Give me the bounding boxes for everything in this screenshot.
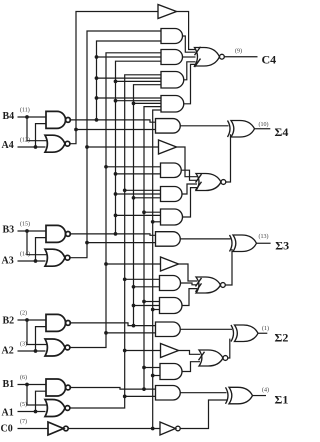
wire NOR2 branch to buffer T3 [106,263,161,265]
wire inverter2 output to XOR1 [180,400,227,429]
NOR gate (B4+A4)' [45,135,70,152]
svg-text:(9): (9) [235,48,242,55]
AND gate C4T (5-input, C4 term) [161,96,184,113]
svg-text:B1: B1 [3,379,15,390]
wire NAND1 to AND-2a input [144,367,160,369]
wire NAND2 to AND-C4 input [134,102,162,104]
AND gate 4c (4-input carry4 term) [161,209,183,225]
junction NOR2 branch to buffer T3 [104,262,108,266]
XOR gate sum-1 [226,387,253,404]
AND gate 2a (2-input carry2 term) [160,364,182,380]
wire NAND2 to AND-3a input [134,286,160,288]
wire AND-3b output to carry3-NOR [182,289,197,306]
junction NAND3 to AND-4a [114,172,118,176]
pin number (7) for C0 [20,418,27,425]
input label A2 [2,346,14,357]
NOR gate (B2+A2)' [45,339,70,356]
junction NAND3 to AND-4c [114,214,118,218]
pin number (1) for sum2 [262,325,269,332]
junction NOR1 branch to AND-4b [123,188,127,192]
junction ~C0 to AND-4c [151,220,155,224]
wire B3 to NOR input [27,231,47,255]
junction NOR4 branch to P4 [74,128,78,132]
svg-text:(11): (11) [20,107,30,114]
wire T4 output to carry4-NOR [177,147,198,177]
wire NAND2 to AND-4b input [134,197,161,199]
AND gate 4b (3-input carry4 term) [161,187,183,202]
NAND gate (B3·A3)' [46,225,70,242]
AND gate P1 (half-sum bit 1) [156,386,181,401]
inverter U-INV1 (C0) [48,422,68,435]
wire NOR1 branch to AND-4b input [125,189,161,191]
junction NOR3 branch to buffer T4 [85,145,89,149]
AND gate 3b (3-input carry3 term) [160,298,183,314]
wire NOR1 branch to buffer T2 [125,350,161,352]
junction NAND2 to AND-4b [132,196,136,200]
wire NOR3 output to vertical bus [70,31,162,258]
svg-text:A4: A4 [2,140,14,151]
wire NAND4 vertical bus [97,41,162,120]
wire carry3 to XOR3 [225,249,232,285]
pin number (11) for B4 [20,107,30,114]
junction NAND2 to AND-3a [132,285,136,289]
AND gate P3 (half-sum bit 3) [156,232,181,247]
junction NAND3 to AND-C4 [114,99,118,103]
wire AND-3a output to carry3-NOR [181,283,198,285]
NAND gate (B4·A4)' [46,111,70,128]
pin number (4) for sum1 [262,387,269,394]
wire T-top output to C4-NOR [177,12,196,50]
junction NOR3 branch to P3 [85,241,89,245]
bundle slash C4-NOR upper [195,47,201,56]
junction NOR1 branch to P1 [123,395,127,399]
junction B3 split [25,229,29,233]
svg-text:Σ2: Σ2 [275,331,289,345]
pin number (3) for A2 [20,341,27,348]
wire B1 to NOR input [27,385,47,406]
output label sum2 [275,331,289,345]
AND gate 3a (2-input carry3 term) [160,276,181,291]
junction ~C0 to vertical bus [151,427,155,431]
junction NOR2 branch to AND-4a [104,165,108,169]
wire NAND2 to AND-3b input [134,305,160,307]
wire NAND1 vertical bus [144,107,162,390]
wire A4 input [18,146,46,148]
wire NAND3 to AND-4b input [116,193,161,195]
junction NAND3 to vertical bus [114,232,118,236]
junction ~C0 to AND-3b [151,308,155,312]
junction NAND3 to AND-4b [114,192,118,196]
wire B1 input [18,384,47,386]
pin number (6) for B1 [20,374,27,381]
XOR gate sum-2 [231,325,258,342]
wire NAND1 output to P1 input [69,388,156,390]
junction NAND2 to vertical bus [132,324,136,328]
XOR gate sum-3 [230,235,257,252]
svg-text:Σ1: Σ1 [275,393,289,407]
wire B4 input [18,116,47,118]
input label C0 [1,424,13,435]
junction NOR1 branch to AND-3a [123,277,127,281]
junction NAND4 to AND-C4 [95,96,99,100]
svg-text:(15): (15) [20,221,30,228]
input label B2 [3,315,15,326]
junction A4 split [34,145,38,149]
wire A3 input [18,260,46,262]
svg-text:Σ4: Σ4 [275,125,289,139]
pin number (5) for A1 [20,401,27,408]
svg-text:(6): (6) [20,374,27,381]
wire C4 output [224,56,257,58]
junction NAND3 to AND-C3 [114,80,118,84]
wire NAND2 output to P2 input [69,323,156,326]
wire NAND2 vertical bus [134,85,161,326]
pin number (15) for B3 [20,221,30,228]
junction NAND4 to AND-C2 [95,55,99,59]
AND gate 4a (2-input carry4 term) [161,163,182,178]
output label C4 [262,53,277,67]
pin number (9) for C4 [235,48,242,55]
junction B4 split [25,115,29,119]
wire P2 output to XOR2 [180,328,232,330]
wire NAND1 to AND-3b input [144,301,160,303]
wire ~C0 vertical bus [153,110,162,429]
wire carry4 to XOR4 [226,134,231,182]
wire NAND3 to AND-C4 input [116,100,162,102]
wire A2 to NAND input [36,327,47,351]
wire carry2 to XOR2 [228,339,230,358]
wire NAND4 to AND-C4 input [97,97,162,99]
NOR gate carry-4 [196,174,226,191]
pin number (13) for sum3 [259,233,269,240]
wire NOR1 branch to AND-3a input [125,278,160,280]
wire NOR4 branch to P4 input [76,129,156,131]
wire T2 output to carry2-NOR [179,351,201,355]
NOR gate carry-2 [199,350,228,366]
svg-text:Σ3: Σ3 [275,239,289,253]
AND gate P4 (half-sum bit 4) [156,119,181,134]
wire NOR1 branch to P1 input [125,395,156,397]
junction NAND4 to vertical bus [95,118,99,122]
wire ~C0 to AND-2a input [153,375,160,377]
wire NAND4 output to P4 input [69,120,156,122]
wire AND-C3 output to C4-NOR [184,62,196,80]
wire NOR2 branch to P2 input [106,332,156,334]
input label A1 [2,407,14,418]
junction NAND1 to AND-2a [142,366,146,370]
NOR gate (B1+A1)' [45,400,70,417]
svg-text:C4: C4 [262,53,277,67]
svg-text:B4: B4 [3,111,15,122]
svg-text:A3: A3 [2,256,14,267]
junction ~C0 to AND-2a [151,374,155,378]
buffer T-top (NOR4 term) [158,5,177,19]
wire P3 output to XOR3 [180,238,230,240]
junction NAND2 to AND-3b [132,304,136,308]
svg-text:(3): (3) [20,341,27,348]
wire B4 to NOR input [27,117,47,141]
NOR gate U-C4 (carry out) [195,48,225,67]
svg-text:(10): (10) [259,121,269,128]
svg-text:(14): (14) [20,251,30,258]
junction NAND2 to AND-C4 [132,102,136,106]
wire NAND1 to AND-4c input [144,211,161,213]
svg-text:B3: B3 [3,225,15,236]
wire B3 input [18,230,47,232]
wire NOR3 branch to buffer T4 [87,146,159,148]
wire AND-2a output to carry2-NOR [182,362,200,372]
wire C0 input [18,428,49,430]
AND gate C1 (2-input, C4 term) [161,29,183,44]
junction NOR1 branch to buffer T2 [123,349,127,353]
wire NAND3 to AND-C3 input [116,80,161,82]
wire P4 output to XOR4 [180,125,228,127]
bundle slash C4-NOR lower [195,59,201,68]
wire AND-4c output to carry4-NOR [183,188,198,217]
wire P1 output to XOR1 [180,392,226,394]
pin number (2) for B2 [20,310,27,317]
wire AND-C1 output to C4-NOR [183,36,196,52]
wire AND-C2 output to C4-NOR [183,56,196,58]
buffer T2 (NOR1 term) [161,344,179,358]
input label A3 [2,256,14,267]
wire NOR2 branch to AND-4a input [106,166,161,168]
junction A3 split [34,259,38,263]
junction B1 split [25,383,29,387]
NOR gate carry-3 [196,277,225,293]
wire inverted C0 line [68,428,160,430]
svg-text:C0: C0 [1,424,13,435]
wire AND-C4T output to C4-NOR [184,64,196,103]
bundle slash carry2-NOR [199,352,205,361]
wire NAND3 to AND-4c input [116,214,161,216]
input label B4 [3,111,15,122]
input label B1 [3,379,15,390]
NOR gate (B3+A3)' [45,249,70,266]
junction NAND1 to AND-3b [142,300,146,304]
output label sum1 [275,393,289,407]
svg-text:(12): (12) [20,137,30,144]
output label sum4 [275,125,289,139]
input label A4 [2,140,14,151]
svg-text:B2: B2 [3,315,15,326]
pin number (10) for sum4 [259,121,269,128]
pin number (12) for A4 [20,137,30,144]
wire A4 to NAND input [36,124,47,147]
NAND gate (B2·A2)' [46,314,70,331]
wire NAND3 output to P3 input [69,234,156,235]
svg-text:(5): (5) [20,401,27,408]
svg-text:A2: A2 [2,346,14,357]
wire NAND4 to AND-C2 input [97,56,162,58]
junction B2 split [25,318,29,322]
bundle slash carry3-NOR upper [196,278,202,287]
wire A1 input [18,411,46,413]
input label B3 [3,225,15,236]
output label sum3 [275,239,289,253]
junction A2 split [34,349,38,353]
wire A1 to NAND input [36,391,47,411]
bundle slash carry3-NOR lower [196,283,202,292]
junction NAND4 to AND-C3 [95,76,99,80]
wire AND-4b output to carry4-NOR [182,184,197,194]
wire ~C0 to AND-4c input [153,221,161,223]
AND gate P2 (half-sum bit 2) [156,322,181,337]
svg-text:(1): (1) [262,325,269,332]
wire NAND3 vertical bus [116,61,162,234]
wire A2 input [18,350,46,352]
wire NOR1 output to vertical bus [70,75,161,408]
svg-text:(2): (2) [20,310,27,317]
wire NOR3 branch to P3 input [87,242,156,244]
AND gate C2 (3-input, C4 term) [161,50,183,65]
XOR gate sum-4 [228,121,255,138]
wire T3 output to carry3-NOR [179,264,198,281]
wire sum2 output [258,332,267,334]
inverter U-INV2 (C0 buffered) [160,422,180,435]
junction NAND1 to vertical bus [142,387,146,391]
junction NOR2 branch to P2 [104,331,108,335]
svg-text:(7): (7) [20,418,27,425]
junction A1 split [34,410,38,414]
wire NOR4 output to vertical bus [70,12,158,144]
wire B2 to NOR input [27,320,47,345]
wire sum3 output [257,242,271,244]
wire NAND3 to AND-4a input [116,173,161,175]
buffer T4 (NOR3 term) [159,140,177,154]
buffer T3 (NOR2 term) [161,257,179,271]
wire NOR2 output to vertical bus [70,53,162,348]
AND gate C3 (4-input, C4 term) [161,72,184,89]
wire A3 to NAND input [36,238,47,261]
junction NAND1 to AND-4c [142,210,146,214]
wire AND-4a output to carry4-NOR [181,170,197,180]
wire ~C0 to AND-3b input [153,309,160,311]
bundle slash carry4-NOR lower [196,182,202,191]
wire sum4 output [255,128,271,130]
wire sum1 output [253,395,267,397]
svg-text:(4): (4) [262,387,269,394]
pin number (14) for A3 [20,251,30,258]
bundle slash carry4-NOR upper [196,174,202,183]
svg-text:A1: A1 [2,407,14,418]
wire B2 input [18,319,47,321]
NAND gate (B1·A1)' [46,379,70,396]
wire NAND4 to AND-C3 input [97,77,161,79]
svg-text:(13): (13) [259,233,269,240]
